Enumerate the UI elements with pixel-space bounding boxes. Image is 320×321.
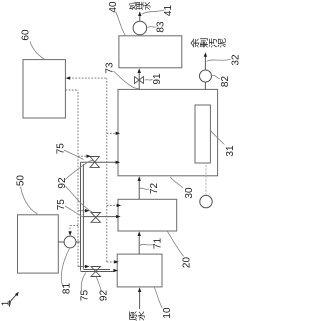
svg-text:41: 41: [163, 5, 174, 17]
label treated water 処理水 (vertical): [129, 2, 136, 10]
treated water arrowhead: [138, 11, 141, 16]
aeration header lower line: [82, 164, 84, 269]
leader 83: [148, 26, 157, 29]
sludge pump 82: [200, 70, 212, 82]
sludge pipe: [204, 56, 206, 90]
leader 32: [207, 59, 231, 61]
leader 10: [154, 287, 162, 308]
leader 71: [140, 244, 155, 245]
suction pump 83: [133, 21, 147, 35]
svg-text:50: 50: [16, 175, 27, 187]
control arrowhead valve 92b: [85, 209, 90, 212]
blower 81: [64, 236, 76, 248]
svg-text:20: 20: [182, 257, 193, 269]
leader 75a: [64, 150, 84, 160]
label excess sludge 余剰汚泥 (vertical): [191, 38, 199, 47]
svg-text:10: 10: [162, 307, 173, 319]
pipe 72 arrowhead: [138, 176, 141, 181]
signal arrowhead tank10: [114, 260, 119, 263]
svg-text:75: 75: [80, 290, 91, 302]
leader 72: [140, 188, 150, 189]
sludge arrowhead: [204, 52, 207, 57]
pipe 71 arrowhead: [138, 231, 141, 236]
membrane separation tank 30: [118, 89, 218, 175]
svg-text:60: 60: [21, 29, 32, 41]
signal trunk line: [106, 78, 108, 262]
svg-text:40: 40: [108, 1, 119, 13]
pipe 72: [138, 180, 140, 199]
blower to header link: [76, 241, 81, 243]
leader 20: [167, 231, 183, 256]
leader 75b: [65, 206, 83, 217]
leader 40: [116, 12, 126, 36]
pressure gauge: [200, 195, 212, 207]
signal arrowhead into controller: [66, 76, 71, 79]
leader 31: [211, 131, 225, 145]
svg-text:75: 75: [55, 143, 66, 155]
blower to box50 link: [58, 241, 64, 243]
leader 92 to valve 92b: [65, 186, 93, 212]
svg-text:92: 92: [99, 290, 110, 302]
aeration header upper line: [80, 162, 82, 270]
svg-text:30: 30: [184, 187, 195, 199]
valve 92c: [91, 267, 101, 277]
treated water outlet pipe: [139, 15, 141, 21]
leader 73: [114, 71, 139, 89]
signal line to controller: [69, 77, 107, 79]
valve 92a: [90, 157, 99, 168]
aeration branch to tank10 outer: [81, 271, 115, 273]
raw water arrowhead: [138, 287, 141, 292]
svg-text:71: 71: [153, 238, 164, 250]
treated water tank 40: [119, 36, 182, 68]
tank 20: [118, 199, 177, 231]
raw water inlet pipe: [139, 291, 141, 309]
svg-text:72: 72: [149, 183, 160, 195]
svg-text:81: 81: [62, 283, 73, 295]
tank 10: [117, 254, 162, 287]
leader 92 to valve 92a: [65, 161, 94, 180]
leader 41: [142, 10, 164, 14]
valve 92b: [91, 213, 101, 223]
control line from controller: [65, 90, 78, 267]
svg-text:31: 31: [225, 145, 236, 157]
pipe 73 arrowhead: [138, 68, 141, 73]
gauge sensing line: [205, 163, 207, 195]
aeration branch to tank10 inner: [83, 269, 110, 271]
label 1 arrowhead: [15, 292, 19, 297]
leader 82: [212, 75, 220, 79]
control stub valve 92c: [78, 266, 86, 268]
leader 30: [170, 177, 182, 188]
svg-text:83: 83: [156, 21, 167, 33]
control branch to blower: [70, 226, 78, 233]
control stub valve 92a: [78, 155, 88, 157]
arrowhead into tank20: [116, 215, 121, 218]
pipe 71: [138, 235, 140, 254]
leader 60: [30, 42, 45, 60]
leader 81: [61, 249, 69, 289]
control stub valve 92b: [78, 210, 86, 212]
svg-text:91: 91: [152, 73, 163, 85]
membrane module 31: [195, 105, 210, 163]
pipe 73: [138, 72, 140, 89]
svg-text:92: 92: [57, 177, 68, 189]
label 1 underline: [9, 300, 11, 306]
svg-text:73: 73: [105, 62, 116, 74]
aeration branch to tank20: [83, 216, 117, 218]
leader 91: [145, 79, 153, 80]
arrowhead into tank10: [113, 269, 118, 272]
label raw water 原水 (vertical): [129, 311, 137, 320]
leader 50: [21, 187, 38, 215]
svg-text:75: 75: [56, 199, 67, 211]
controller 60: [23, 60, 65, 118]
svg-text:32: 32: [231, 54, 240, 66]
signal arrowhead tank20: [117, 204, 122, 207]
signal stub tank10: [107, 261, 115, 263]
aeration branch to tank30: [81, 161, 117, 163]
signal stub tank20: [107, 204, 118, 206]
label 1 arrow: [10, 293, 18, 305]
signal stub tank30: [107, 132, 117, 134]
blower box 50: [18, 215, 59, 273]
leader 92c: [96, 277, 101, 292]
arrowhead into tank30: [116, 161, 121, 164]
leader 75c: [81, 273, 86, 292]
control arrowhead blower: [68, 231, 71, 236]
control arrowhead valve 92a: [86, 155, 91, 158]
control arrowhead valve 92c: [85, 265, 90, 268]
signal arrowhead tank30: [116, 132, 121, 135]
valve 91: [135, 77, 144, 84]
svg-text:82: 82: [220, 76, 231, 88]
